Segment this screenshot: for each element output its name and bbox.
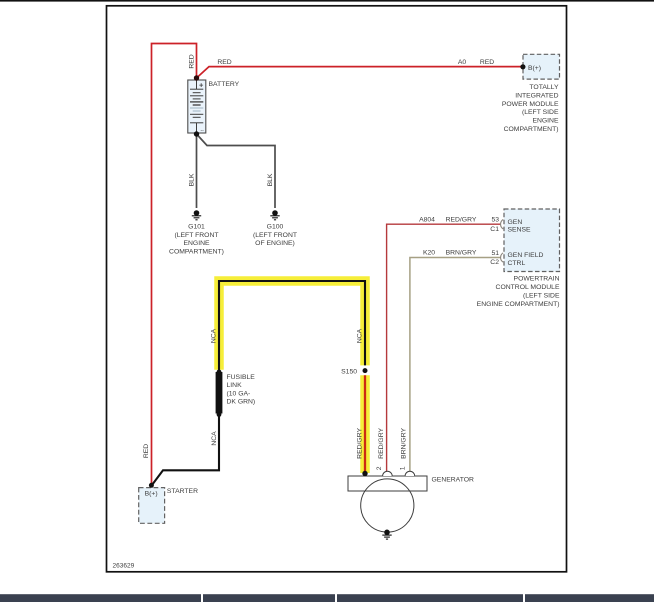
wire RED battery-to-TIPM [197, 67, 523, 78]
svg-text:COMPARTMENT): COMPARTMENT) [504, 126, 559, 133]
svg-text:1: 1 [399, 466, 406, 470]
ground generator case [382, 530, 391, 540]
svg-text:BRN/GRY: BRN/GRY [446, 250, 477, 257]
svg-text:(10 GA-: (10 GA- [227, 390, 251, 397]
svg-text:NCA: NCA [356, 328, 363, 343]
svg-text:ENGINE: ENGINE [183, 240, 210, 247]
svg-text:B(+): B(+) [145, 490, 158, 497]
diagram border frame [107, 6, 567, 572]
wire RED battery-to-starter [152, 44, 197, 486]
wire RED/GRY highlighted (S150 to generator) [360, 375, 370, 473]
svg-text:2: 2 [376, 466, 383, 470]
svg-text:(LEFT SIDE: (LEFT SIDE [522, 109, 559, 116]
wire BLK battery-to-G101 [196, 134, 198, 208]
pin bump 2 [383, 471, 393, 476]
svg-text:(LEFT SIDE: (LEFT SIDE [523, 292, 560, 299]
bottom bar [0, 594, 654, 602]
wire BLK battery-to-G100 [197, 134, 276, 208]
junction battery top [194, 75, 199, 80]
svg-text:BLK: BLK [267, 173, 274, 186]
svg-text:INTEGRATED: INTEGRATED [515, 92, 558, 99]
svg-text:RED: RED [189, 54, 196, 68]
module U-PCM (Powertrain Control Module) [504, 209, 560, 272]
svg-text:NCA: NCA [210, 328, 217, 343]
svg-text:STARTER: STARTER [167, 488, 198, 495]
svg-text:GEN: GEN [508, 219, 523, 226]
svg-text:ENGINE COMPARTMENT): ENGINE COMPARTMENT) [477, 301, 560, 308]
svg-text:263629: 263629 [113, 563, 135, 570]
svg-text:NCA: NCA [211, 431, 218, 446]
connector arc C2 [501, 253, 504, 262]
svg-text:A804: A804 [419, 217, 435, 224]
svg-text:POWER MODULE: POWER MODULE [502, 101, 559, 108]
top edge line [0, 0, 654, 2]
ground G100 [270, 210, 279, 220]
svg-text:RED/GRY: RED/GRY [446, 217, 477, 224]
svg-text:CTRL: CTRL [508, 260, 526, 267]
svg-text:OF ENGINE): OF ENGINE) [255, 240, 295, 247]
junction generator pin [362, 471, 367, 476]
svg-text:DK GRN): DK GRN) [227, 399, 256, 406]
svg-text:CONTROL MODULE: CONTROL MODULE [496, 284, 560, 291]
svg-text:(LEFT FRONT: (LEFT FRONT [253, 232, 297, 239]
svg-text:ENGINE: ENGINE [532, 118, 559, 125]
ground G101 [192, 210, 201, 220]
svg-text:A0: A0 [458, 59, 467, 66]
svg-text:GENERATOR: GENERATOR [432, 477, 475, 484]
junction starter pin [149, 483, 154, 488]
connector arc C1 [501, 220, 504, 229]
label PCM name [477, 276, 560, 308]
junction battery bottom [194, 131, 199, 136]
svg-text:RED/GRY: RED/GRY [378, 428, 385, 459]
starter module [139, 488, 165, 524]
wire BRN/GRY PCM-to-generator [410, 258, 501, 473]
svg-text:C2: C2 [490, 259, 499, 266]
svg-text:BRN/GRY: BRN/GRY [401, 428, 408, 459]
svg-text:SENSE: SENSE [508, 227, 532, 234]
label TIPM name [502, 84, 559, 133]
fusible link F1 [216, 372, 223, 414]
svg-text:RED: RED [480, 59, 494, 66]
svg-text:TOTALLY: TOTALLY [529, 84, 559, 91]
svg-text:C1: C1 [490, 226, 499, 233]
svg-text:B(+): B(+) [528, 65, 541, 72]
svg-text:51: 51 [491, 250, 499, 257]
svg-text:BLK: BLK [188, 173, 195, 186]
splice S150 [363, 368, 368, 373]
svg-text:S150: S150 [341, 368, 357, 375]
svg-text:(LEFT FRONT: (LEFT FRONT [174, 232, 218, 239]
svg-text:53: 53 [491, 217, 499, 224]
svg-text:FUSIBLE: FUSIBLE [227, 374, 256, 381]
generator [348, 471, 427, 532]
svg-text:GEN FIELD: GEN FIELD [508, 252, 544, 259]
battery BATTERY [188, 80, 206, 134]
pin bump 1 [405, 471, 415, 476]
junction TIPM pin [520, 64, 525, 69]
wire RED/GRY PCM-to-generator [387, 224, 501, 472]
svg-text:K20: K20 [423, 250, 435, 257]
wire NCA highlighted (fusible link to S150) [219, 281, 365, 370]
svg-text:RED: RED [217, 59, 231, 66]
svg-text:LINK: LINK [227, 382, 243, 389]
svg-text:G100: G100 [267, 224, 284, 231]
svg-text:--: -- [201, 128, 205, 134]
svg-text:RED/GRY: RED/GRY [356, 428, 363, 459]
module U-TIPM (Totally Integrated Power Module) [523, 54, 560, 79]
svg-text:RED: RED [143, 444, 150, 458]
svg-text:POWERTRAIN: POWERTRAIN [514, 276, 560, 283]
svg-text:+: + [199, 81, 204, 90]
svg-text:COMPARTMENT): COMPARTMENT) [169, 248, 224, 255]
svg-text:BATTERY: BATTERY [209, 81, 240, 88]
svg-text:G101: G101 [188, 224, 205, 231]
wire NCA fusible-link-to-starter [152, 415, 220, 486]
